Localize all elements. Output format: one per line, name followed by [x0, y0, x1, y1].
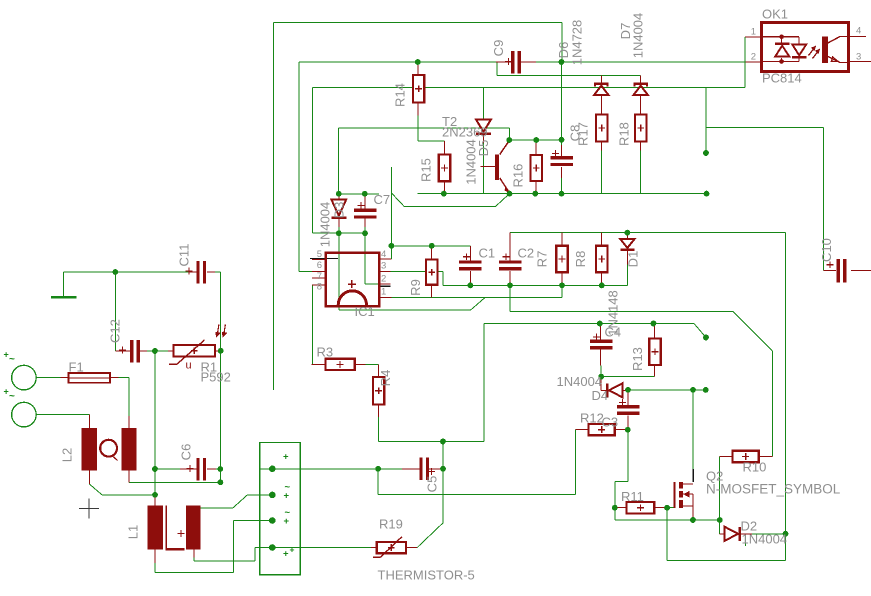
svg-text:OK1: OK1 — [762, 7, 788, 22]
svg-text:THERMISTOR-5: THERMISTOR-5 — [378, 568, 475, 583]
svg-text:C9: C9 — [491, 40, 506, 57]
svg-text:P592: P592 — [201, 370, 231, 385]
svg-text:2N2369: 2N2369 — [442, 125, 488, 140]
svg-text:R19: R19 — [379, 517, 403, 532]
svg-text:2: 2 — [751, 52, 756, 63]
svg-text:2: 2 — [381, 274, 386, 285]
svg-text:D3: D3 — [332, 202, 347, 219]
svg-text:6: 6 — [317, 260, 322, 271]
svg-text:F1: F1 — [69, 360, 84, 375]
svg-text:3: 3 — [381, 261, 386, 272]
svg-text:R15: R15 — [419, 158, 434, 182]
svg-text:+: + — [283, 452, 289, 463]
svg-text:C7: C7 — [374, 192, 391, 207]
svg-text:+: + — [283, 549, 289, 560]
svg-text:C10: C10 — [819, 238, 834, 262]
svg-text:IC1: IC1 — [355, 304, 375, 319]
svg-text:1: 1 — [381, 287, 386, 298]
svg-text:D4: D4 — [592, 388, 609, 403]
svg-text:1N4004: 1N4004 — [742, 532, 788, 547]
svg-text:+: + — [4, 350, 9, 360]
svg-text:C5: C5 — [425, 476, 440, 493]
svg-text:1N4004: 1N4004 — [318, 202, 333, 248]
svg-text:4: 4 — [381, 249, 386, 260]
svg-text:C12: C12 — [108, 319, 123, 343]
svg-text:R8: R8 — [573, 251, 588, 268]
svg-text:R12: R12 — [580, 411, 604, 426]
svg-text:~: ~ — [9, 391, 15, 402]
svg-text:R9: R9 — [408, 279, 423, 296]
svg-text:R18: R18 — [617, 122, 632, 146]
svg-text:1N4004: 1N4004 — [464, 139, 479, 185]
svg-text:u: u — [186, 360, 192, 372]
svg-text:1N4004: 1N4004 — [631, 13, 646, 59]
svg-text:1N4148: 1N4148 — [606, 290, 621, 336]
svg-text:3: 3 — [856, 52, 861, 63]
svg-text:1N4004: 1N4004 — [557, 374, 603, 389]
svg-text:R16: R16 — [511, 164, 526, 188]
svg-text:+: + — [284, 516, 290, 527]
svg-text:5: 5 — [317, 249, 322, 260]
svg-text:1: 1 — [751, 27, 756, 38]
svg-text:R14: R14 — [393, 83, 408, 107]
svg-text:R3: R3 — [317, 345, 334, 360]
svg-text:R4: R4 — [378, 370, 393, 387]
svg-text:R11: R11 — [621, 489, 644, 504]
svg-text:+: + — [4, 387, 9, 397]
svg-text:C6: C6 — [179, 444, 194, 461]
svg-text:+: + — [290, 545, 295, 555]
svg-text:L2: L2 — [60, 448, 75, 462]
svg-text:C1: C1 — [479, 246, 496, 261]
svg-text:C3: C3 — [602, 415, 619, 430]
svg-text:7: 7 — [317, 271, 322, 282]
svg-text:N-MOSFET_SYMBOL: N-MOSFET_SYMBOL — [706, 482, 841, 497]
svg-text:R13: R13 — [630, 347, 645, 371]
svg-text:PC814: PC814 — [762, 71, 802, 86]
svg-text:4: 4 — [856, 26, 861, 37]
svg-text:R17: R17 — [576, 122, 591, 146]
svg-text:~: ~ — [9, 354, 15, 365]
svg-text:R7: R7 — [535, 251, 550, 268]
svg-text:8: 8 — [317, 282, 322, 293]
svg-text:D1: D1 — [626, 251, 641, 268]
svg-text:R10: R10 — [743, 460, 767, 475]
svg-text:L1: L1 — [126, 525, 141, 539]
svg-text:C2: C2 — [518, 246, 535, 261]
svg-text:C11: C11 — [177, 244, 192, 267]
svg-text:+: + — [284, 491, 290, 502]
svg-text:1N4728: 1N4728 — [570, 20, 585, 66]
